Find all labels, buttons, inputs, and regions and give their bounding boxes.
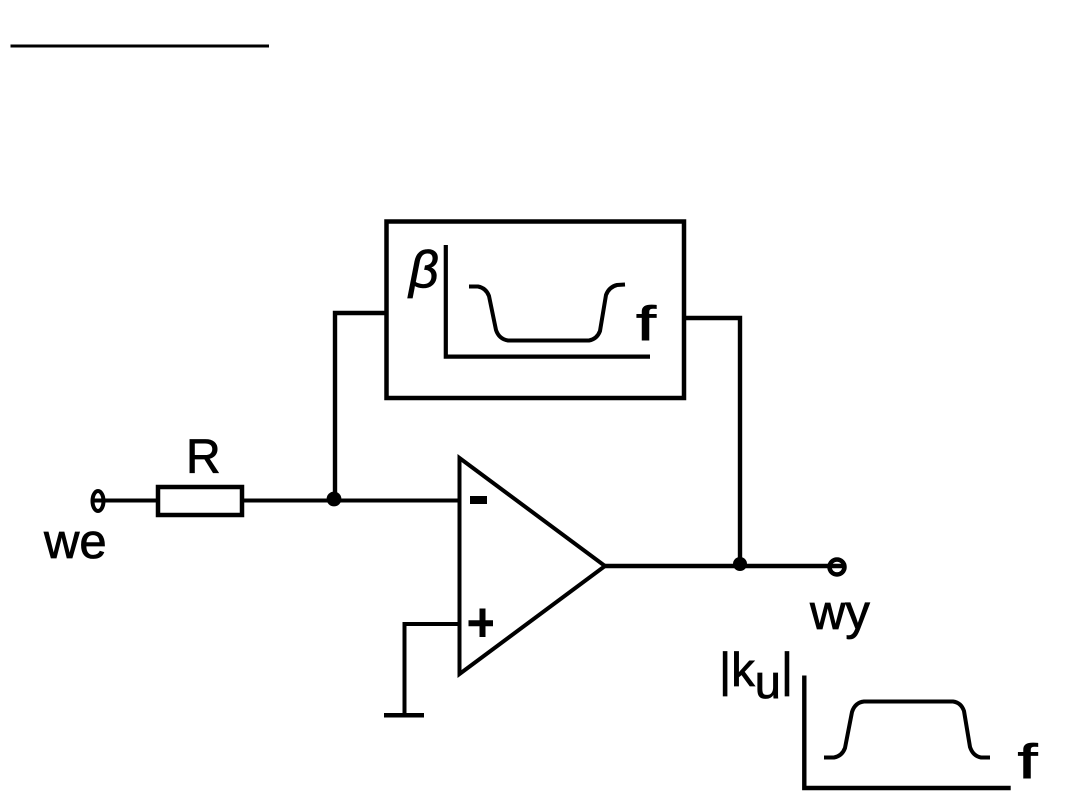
wire op-amp output to output terminal (through node B) [605,564,843,568]
ground [384,713,424,718]
ku graph axes [802,676,1011,789]
wire non-inverting input [405,624,460,715]
node A [327,492,342,507]
svg-text:wy: wy [809,586,870,640]
op-amp U1 [460,458,606,674]
beta graph axes [444,245,650,357]
beta response curve [469,285,625,341]
input terminal we [93,491,104,511]
wire node B up to feedback box [684,318,740,566]
resistor R [158,487,242,515]
svg-text:we: we [43,515,107,569]
top rule [11,45,270,48]
svg-text:f: f [1018,736,1039,789]
ku response curve [824,702,990,758]
feedback network box B1 [387,222,685,399]
svg-text:β: β [407,241,439,299]
svg-text:R: R [186,431,221,484]
wire node A up to feedback box [335,313,387,501]
minus sign inverting input [470,496,487,504]
output terminal wy [830,560,845,575]
node B [733,557,747,571]
svg-text:f: f [636,298,657,351]
svg-text:|ku|: |ku| [719,643,793,708]
wire resistor to op-amp inverting input (through node A) [242,499,459,503]
wire input terminal to resistor [92,499,158,503]
plus sign non-inverting input [469,609,494,638]
